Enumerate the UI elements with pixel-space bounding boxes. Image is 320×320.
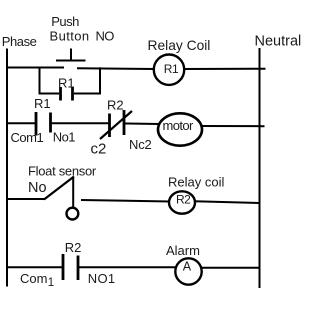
svg-text:Alarm: Alarm xyxy=(166,243,200,258)
svg-text:R1: R1 xyxy=(164,62,179,76)
svg-text:R1: R1 xyxy=(34,96,51,111)
svg-text:Neutral: Neutral xyxy=(255,34,302,50)
svg-text:Button: Button xyxy=(50,28,90,43)
svg-text:Com1: Com1 xyxy=(11,130,44,145)
svg-text:No: No xyxy=(28,180,47,196)
svg-text:Com: Com xyxy=(20,271,47,286)
svg-text:R2: R2 xyxy=(176,193,191,207)
svg-text:R2: R2 xyxy=(107,98,124,113)
svg-text:R2: R2 xyxy=(65,240,82,255)
svg-text:Relay coil: Relay coil xyxy=(168,174,224,189)
svg-text:A: A xyxy=(183,259,192,273)
svg-text:R1: R1 xyxy=(58,76,75,91)
svg-text:No1: No1 xyxy=(53,130,75,145)
svg-text:NO1: NO1 xyxy=(88,271,116,286)
svg-text:Push: Push xyxy=(51,14,79,29)
svg-text:Phase: Phase xyxy=(2,34,37,49)
svg-text:motor: motor xyxy=(163,118,195,133)
svg-text:Relay Coil: Relay Coil xyxy=(148,38,211,53)
svg-text:Nc2: Nc2 xyxy=(129,137,152,152)
svg-text:c2: c2 xyxy=(91,141,107,158)
svg-text:Float sensor: Float sensor xyxy=(28,164,97,179)
svg-text:NO: NO xyxy=(96,28,115,43)
svg-text:1: 1 xyxy=(48,277,54,289)
